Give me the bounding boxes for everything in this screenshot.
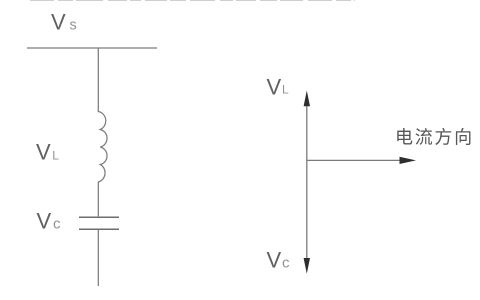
svg-text:L: L xyxy=(52,148,59,162)
svg-text:V: V xyxy=(37,209,52,234)
svg-text:L: L xyxy=(282,83,289,97)
svg-text:c: c xyxy=(282,254,290,271)
svg-text:V: V xyxy=(51,10,66,35)
svg-text:V: V xyxy=(36,140,51,165)
svg-text:V: V xyxy=(267,248,282,273)
svg-text:s: s xyxy=(70,18,77,34)
svg-text:电流方向: 电流方向 xyxy=(395,127,474,147)
svg-text:V: V xyxy=(267,75,282,100)
svg-text:c: c xyxy=(53,216,61,233)
